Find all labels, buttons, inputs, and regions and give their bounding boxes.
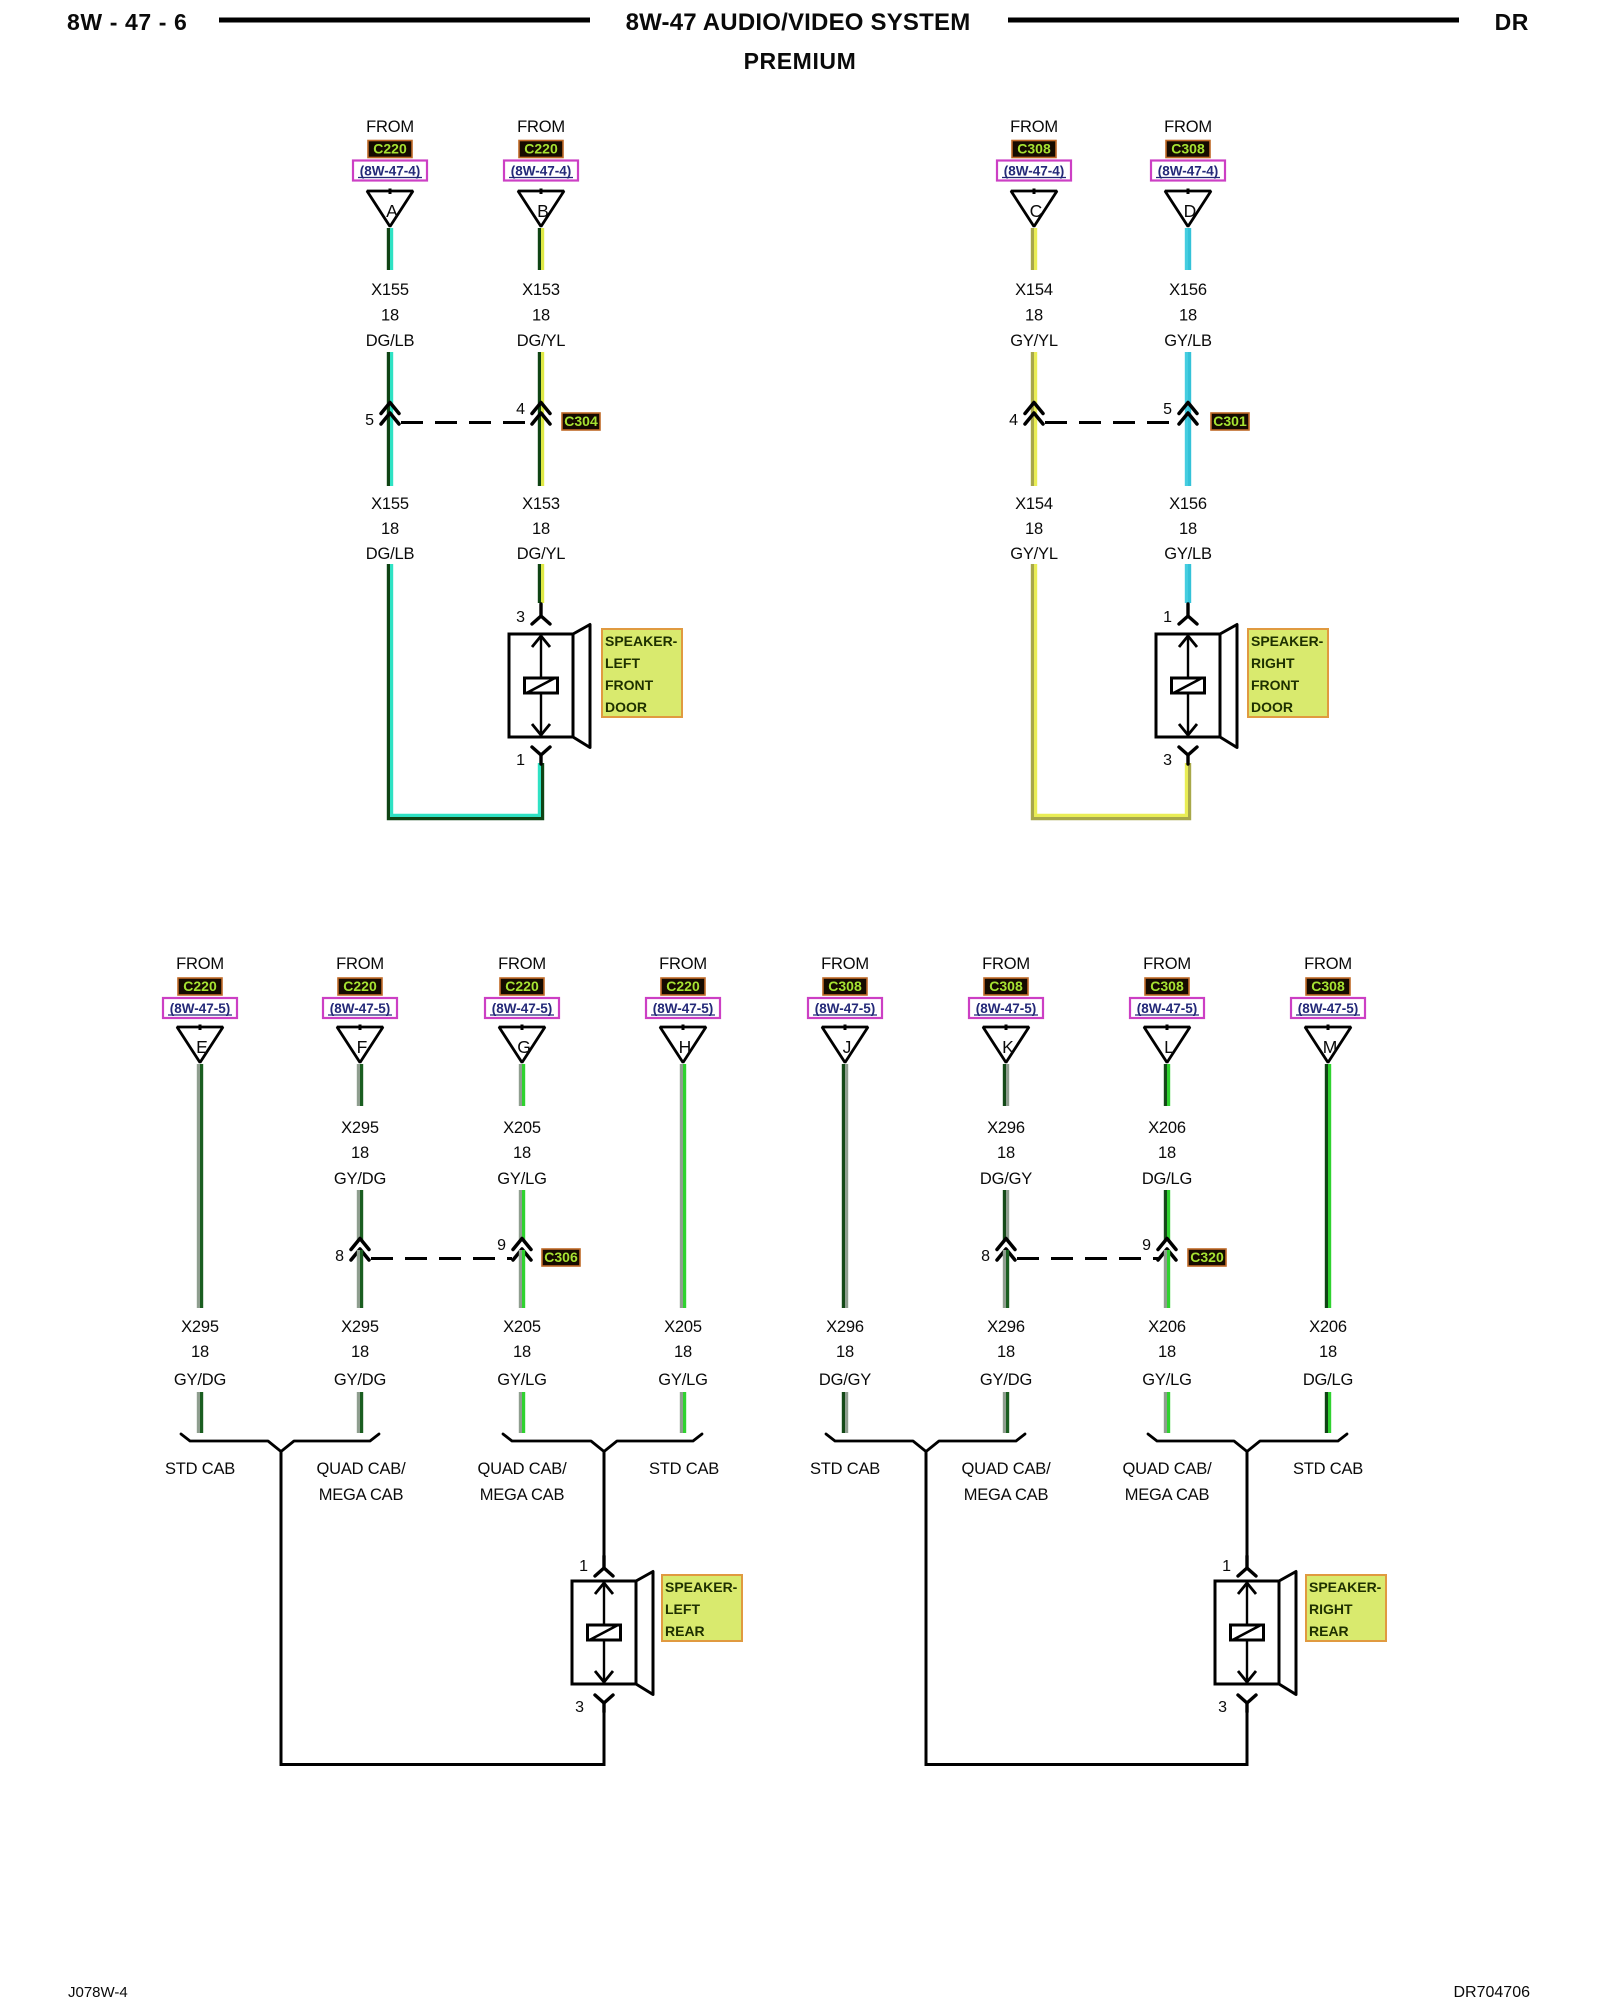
label QUAD CAB/MEGA CAB (col L) (1123, 1460, 1213, 1504)
inline connector pin 4 (col B) (516, 401, 550, 424)
speaker - left rear label (662, 1575, 742, 1641)
svg-text:GY/DG: GY/DG (174, 1371, 226, 1389)
node C: FROM label (1010, 118, 1058, 136)
node A: FROM label (366, 118, 414, 136)
svg-text:18: 18 (1179, 307, 1197, 325)
svg-text:F: F (357, 1037, 368, 1057)
page link (8W-47-4) (col D) (1151, 161, 1225, 181)
wire X156 GY/LB drop to speaker pin 1 (1186, 564, 1189, 603)
wire label X154 18 GY/YL upper (col C) (1010, 281, 1058, 350)
wire X296 seg2 (col K) (1004, 1190, 1007, 1241)
node K: FROM label (982, 955, 1030, 973)
svg-text:8W-47 AUDIO/VIDEO SYSTEM: 8W-47 AUDIO/VIDEO SYSTEM (626, 9, 971, 36)
svg-text:C308: C308 (828, 978, 862, 994)
svg-text:5: 5 (1163, 401, 1172, 418)
wire X156 seg3 (col D) (1186, 431, 1189, 486)
svg-text:FROM: FROM (498, 955, 546, 973)
connector link C220 (col H) (661, 978, 705, 995)
svg-text:(8W-47-5): (8W-47-5) (1137, 1001, 1198, 1016)
wire X153 seg2 (col B) (539, 352, 542, 431)
svg-text:C304: C304 (564, 413, 598, 429)
svg-text:3: 3 (516, 609, 525, 626)
svg-text:3: 3 (1163, 752, 1172, 769)
speaker-left-rear pin 1 (579, 1556, 613, 1576)
svg-text:DOOR: DOOR (605, 699, 647, 715)
connector C301 label (1211, 413, 1249, 430)
svg-text:FROM: FROM (821, 955, 869, 973)
svg-text:L: L (1164, 1037, 1174, 1057)
wire X295 seg2 (col F) (358, 1190, 361, 1241)
svg-text:C308: C308 (989, 978, 1023, 994)
speaker - left front door symbol (509, 625, 590, 748)
inline connector pin 5 (col A) (365, 403, 399, 430)
speaker-right-rear pin 1 (1222, 1556, 1256, 1576)
svg-text:GY/LG: GY/LG (497, 1371, 546, 1389)
page header left: 8W - 47 - 6 (67, 9, 187, 35)
svg-text:18: 18 (997, 1343, 1015, 1361)
connector C306 dashed link (371, 1257, 512, 1260)
wire X205 seg3 (col G) (520, 1250, 523, 1308)
wire X295 stub to brace (col F) (358, 1392, 361, 1433)
svg-text:E: E (196, 1037, 208, 1057)
speaker-right-front-door pin 1 (1163, 604, 1197, 626)
label QUAD CAB/MEGA CAB (col F) (317, 1460, 407, 1504)
wire label X156 18 GY/LB lower (col D) (1164, 495, 1212, 563)
off-page triangle M (1305, 1025, 1351, 1063)
wire from G/H brace to rear-left speaker pin 1 (black jumper) (603, 1451, 606, 1556)
wire X296 long run (col J) (843, 1064, 846, 1308)
connector link C220 (col F) (338, 978, 382, 995)
svg-text:(8W-47-5): (8W-47-5) (1298, 1001, 1359, 1016)
svg-text:4: 4 (516, 401, 525, 418)
svg-text:DG/LB: DG/LB (366, 332, 415, 350)
page link (8W-47-4) (col B) (504, 161, 578, 181)
connector link C308 (col K) (984, 978, 1028, 995)
wire X154 GY/YL run to speaker (yellow stripe) (1036, 564, 1187, 815)
svg-text:DG/GY: DG/GY (819, 1371, 871, 1389)
speaker-left-front-door pin 1 (516, 747, 550, 769)
off-page triangle H (660, 1025, 706, 1063)
inline connector pin 8 (col K) (981, 1239, 1015, 1266)
svg-text:8: 8 (335, 1248, 344, 1265)
svg-text:18: 18 (381, 520, 399, 538)
wire X295 stub to brace (col E) (198, 1392, 201, 1433)
svg-text:K: K (1002, 1037, 1014, 1057)
wire X155 seg2 (col A) (388, 352, 391, 431)
off-page triangle L (1144, 1025, 1190, 1063)
wire X205 stub to brace (col H) (681, 1392, 684, 1433)
footer left J078W-4 (68, 1984, 128, 2000)
svg-text:X154: X154 (1015, 281, 1053, 299)
wire label X295 18 GY/DG upper (col F) (334, 1119, 386, 1188)
wire label X205 18 GY/LG lower (col G) (497, 1318, 546, 1389)
svg-text:X205: X205 (664, 1318, 702, 1336)
page title: 8W-47 AUDIO/VIDEO SYSTEM (626, 9, 971, 36)
off-page triangle B (518, 189, 564, 227)
svg-text:X154: X154 (1015, 495, 1053, 513)
svg-text:QUAD CAB/: QUAD CAB/ (962, 1460, 1052, 1478)
svg-text:9: 9 (1142, 1237, 1151, 1254)
svg-text:1: 1 (1163, 609, 1172, 626)
svg-text:(8W-47-5): (8W-47-5) (976, 1001, 1037, 1016)
wire X154 seg3 (col C) (1032, 431, 1035, 486)
svg-text:REAR: REAR (665, 1623, 705, 1639)
connector C320 dashed link (1017, 1257, 1158, 1260)
wire X296 stub to brace (col J) (843, 1392, 846, 1433)
connector link C220 (col B) (519, 141, 563, 158)
svg-text:M: M (1323, 1037, 1338, 1057)
svg-text:FROM: FROM (982, 955, 1030, 973)
wire label X153 18 DG/YL lower (col B) (517, 495, 566, 563)
svg-text:RIGHT: RIGHT (1251, 655, 1295, 671)
svg-text:SPEAKER-: SPEAKER- (665, 1579, 738, 1595)
svg-text:FROM: FROM (659, 955, 707, 973)
svg-text:FROM: FROM (176, 955, 224, 973)
node F: FROM label (336, 955, 384, 973)
svg-text:(8W-47-4): (8W-47-4) (1158, 164, 1219, 179)
connector link C220 (col G) (500, 978, 544, 995)
page link (8W-47-5) (col J) (808, 998, 882, 1018)
svg-text:18: 18 (674, 1343, 692, 1361)
svg-text:MEGA CAB: MEGA CAB (480, 1486, 565, 1504)
svg-text:X295: X295 (181, 1318, 219, 1336)
svg-text:REAR: REAR (1309, 1623, 1349, 1639)
connector link C220 (col E) (178, 978, 222, 995)
svg-text:C220: C220 (373, 141, 407, 157)
svg-text:X296: X296 (826, 1318, 864, 1336)
svg-text:X155: X155 (371, 281, 409, 299)
svg-text:FROM: FROM (1164, 118, 1212, 136)
connector link C308 (col L) (1145, 978, 1189, 995)
svg-text:C308: C308 (1171, 141, 1205, 157)
wire X206 stub to brace (col M) (1326, 1392, 1329, 1433)
svg-text:4: 4 (1009, 412, 1018, 429)
node J: FROM label (821, 955, 869, 973)
svg-text:18: 18 (1319, 1343, 1337, 1361)
svg-text:C220: C220 (183, 978, 217, 994)
svg-text:C220: C220 (666, 978, 700, 994)
inline connector pin 5 (col D) (1163, 401, 1197, 424)
node E: FROM label (176, 955, 224, 973)
svg-text:X296: X296 (987, 1119, 1025, 1137)
svg-text:J078W-4: J078W-4 (68, 1984, 128, 2000)
svg-text:STD CAB: STD CAB (1293, 1460, 1363, 1478)
svg-text:18: 18 (513, 1343, 531, 1361)
svg-text:FRONT: FRONT (1251, 677, 1300, 693)
wire X296 seg3 (col K) (1004, 1250, 1007, 1308)
wire label X296 18 DG/GY upper (col K) (980, 1119, 1032, 1188)
page header right: DR (1495, 9, 1529, 35)
wire label X295 18 GY/DG lower (col F) (334, 1318, 386, 1389)
wire X153 DG/YL seg1 (col B) (539, 228, 542, 270)
svg-text:FRONT: FRONT (605, 677, 654, 693)
connector link C308 (col C) (1012, 141, 1056, 158)
connector C320 label (1188, 1249, 1226, 1266)
svg-text:DR704706: DR704706 (1454, 1984, 1531, 2000)
wire label X154 18 GY/YL lower (col C) (1010, 495, 1058, 563)
svg-text:8: 8 (981, 1248, 990, 1265)
page link (8W-47-5) (col L) (1130, 998, 1204, 1018)
svg-text:(8W-47-5): (8W-47-5) (170, 1001, 231, 1016)
svg-text:18: 18 (1025, 307, 1043, 325)
connector link C308 (col D) (1166, 141, 1210, 158)
svg-text:MEGA CAB: MEGA CAB (1125, 1486, 1210, 1504)
speaker - right front door symbol (1156, 625, 1237, 748)
wire X296 seg1 (col K) (1004, 1064, 1007, 1106)
off-page triangle A (367, 189, 413, 227)
wire X155 DG/LB seg1 (col A) (388, 228, 391, 270)
label STD CAB (col E) (165, 1460, 235, 1478)
svg-text:RIGHT: RIGHT (1309, 1601, 1353, 1617)
connector link C220 (col A) (368, 141, 412, 158)
page link (8W-47-5) (col F) (323, 998, 397, 1018)
wire label X153 18 DG/YL upper (col B) (517, 281, 566, 350)
svg-text:1: 1 (579, 1558, 588, 1575)
svg-text:18: 18 (532, 520, 550, 538)
off-page triangle D (1165, 189, 1211, 227)
svg-text:GY/LG: GY/LG (658, 1371, 707, 1389)
svg-text:X156: X156 (1169, 281, 1207, 299)
wire X295 long run (col E) (198, 1064, 201, 1308)
inline connector pin 9 (col L) (1142, 1237, 1176, 1260)
svg-text:FROM: FROM (517, 118, 565, 136)
wire X155 seg3 (col A) (388, 431, 391, 486)
node D: FROM label (1164, 118, 1212, 136)
wire from E/F brace to rear-left speaker pin 3 (black jumper) (281, 1451, 604, 1765)
page link (8W-47-5) (col H) (646, 998, 720, 1018)
svg-text:X296: X296 (987, 1318, 1025, 1336)
wire X206 seg2 (col L) (1165, 1190, 1168, 1241)
svg-text:C306: C306 (544, 1249, 578, 1265)
wire X205 seg1 (col G) (520, 1064, 523, 1106)
wire label X296 18 DG/GY lower (col J) (819, 1318, 871, 1389)
wire X296 stub to brace (col K) (1004, 1392, 1007, 1433)
brace STD CAB / QUAD CAB group J-K (826, 1434, 1025, 1452)
svg-text:SPEAKER-: SPEAKER- (605, 633, 678, 649)
wire label X206 18 DG/LG lower (col M) (1303, 1318, 1353, 1389)
inline connector pin 8 (col F) (335, 1239, 369, 1266)
svg-text:FROM: FROM (1010, 118, 1058, 136)
svg-text:18: 18 (351, 1144, 369, 1162)
svg-text:C308: C308 (1017, 141, 1051, 157)
wire label X206 18 GY/LG lower (col L) (1142, 1318, 1191, 1389)
wire label X205 18 GY/LG upper (col G) (497, 1119, 546, 1188)
svg-text:18: 18 (532, 307, 550, 325)
wire label X205 18 GY/LG lower (col H) (658, 1318, 707, 1389)
svg-text:J: J (843, 1037, 852, 1057)
svg-text:DG/LG: DG/LG (1303, 1371, 1353, 1389)
svg-text:X153: X153 (522, 281, 560, 299)
svg-text:FROM: FROM (1304, 955, 1352, 973)
svg-text:18: 18 (1179, 520, 1197, 538)
wire X205 long run (col H) (681, 1064, 684, 1308)
wire X205 stub to brace (col G) (520, 1392, 523, 1433)
connector C306 label (542, 1249, 580, 1266)
page link (8W-47-5) (col G) (485, 998, 559, 1018)
wire X295 seg1 (col F) (358, 1064, 361, 1106)
svg-text:X206: X206 (1309, 1318, 1347, 1336)
wire X295 seg3 (col F) (358, 1250, 361, 1308)
connector link C308 (col J) (823, 978, 867, 995)
wire label X155 18 DG/LB upper (col A) (366, 281, 415, 350)
off-page triangle J (822, 1025, 868, 1063)
wire X154 seg2 (col C) (1032, 352, 1035, 431)
wire from J/K brace to rear-right speaker pin 3 (black jumper) (926, 1451, 1247, 1765)
svg-text:X295: X295 (341, 1119, 379, 1137)
svg-text:C308: C308 (1150, 978, 1184, 994)
svg-text:FROM: FROM (1143, 955, 1191, 973)
svg-text:18: 18 (191, 1343, 209, 1361)
label STD CAB (col J) (810, 1460, 880, 1478)
svg-text:H: H (679, 1037, 692, 1057)
svg-text:5: 5 (365, 412, 374, 429)
svg-text:18: 18 (1158, 1343, 1176, 1361)
svg-text:DG/GY: DG/GY (980, 1170, 1032, 1188)
svg-text:C301: C301 (1213, 413, 1247, 429)
svg-text:GY/DG: GY/DG (334, 1371, 386, 1389)
svg-text:PREMIUM: PREMIUM (744, 48, 857, 74)
svg-text:DR: DR (1495, 9, 1529, 35)
svg-text:X153: X153 (522, 495, 560, 513)
svg-text:QUAD CAB/: QUAD CAB/ (478, 1460, 568, 1478)
wire X205 seg2 (col G) (520, 1190, 523, 1241)
svg-text:18: 18 (997, 1144, 1015, 1162)
svg-text:(8W-47-4): (8W-47-4) (1004, 164, 1065, 179)
svg-text:GY/LB: GY/LB (1164, 332, 1212, 350)
svg-text:18: 18 (1025, 520, 1043, 538)
svg-text:X295: X295 (341, 1318, 379, 1336)
node M: FROM label (1304, 955, 1352, 973)
wire X153 DG/YL drop to speaker pin 3 (539, 564, 542, 603)
inline connector pin 4 (col C) (1009, 403, 1043, 430)
node H: FROM label (659, 955, 707, 973)
wire X153 seg3 (col B) (539, 431, 542, 486)
svg-text:DG/YL: DG/YL (517, 545, 566, 563)
speaker-left-rear pin 3 (575, 1695, 613, 1716)
node G: FROM label (498, 955, 546, 973)
svg-text:FROM: FROM (336, 955, 384, 973)
svg-text:18: 18 (836, 1343, 854, 1361)
svg-text:(8W-47-5): (8W-47-5) (653, 1001, 714, 1016)
svg-text:(8W-47-5): (8W-47-5) (330, 1001, 391, 1016)
subtitle PREMIUM (744, 48, 857, 74)
svg-text:8W - 47 - 6: 8W - 47 - 6 (67, 9, 187, 35)
speaker - left rear symbol (572, 1572, 653, 1695)
brace QUAD CAB / STD CAB group L-M (1148, 1434, 1347, 1452)
svg-text:18: 18 (381, 307, 399, 325)
label QUAD CAB/MEGA CAB (col K) (962, 1460, 1052, 1504)
speaker - left front door label (602, 629, 682, 717)
wire X155 DG/LB run to speaker (dark green stripe) (388, 564, 542, 819)
svg-text:MEGA CAB: MEGA CAB (964, 1486, 1049, 1504)
speaker - right rear symbol (1215, 1572, 1296, 1695)
header rule left (219, 18, 590, 23)
brace STD CAB / QUAD CAB group E-F (181, 1434, 379, 1452)
off-page triangle F (337, 1025, 383, 1063)
wire X206 seg1 (col L) (1165, 1064, 1168, 1106)
svg-text:MEGA CAB: MEGA CAB (319, 1486, 404, 1504)
svg-text:B: B (537, 201, 549, 221)
off-page triangle E (177, 1025, 223, 1063)
wire X154 GY/YL run to speaker (olive stripe) (1032, 564, 1189, 819)
connector C304 label (562, 413, 600, 430)
svg-text:3: 3 (1218, 1699, 1227, 1716)
node L: FROM label (1143, 955, 1191, 973)
svg-text:QUAD CAB/: QUAD CAB/ (317, 1460, 407, 1478)
header rule right (1008, 18, 1459, 23)
svg-text:X156: X156 (1169, 495, 1207, 513)
svg-text:C220: C220 (505, 978, 539, 994)
wire X206 seg3 (col L) (1165, 1250, 1168, 1308)
page link (8W-47-4) (col A) (353, 161, 427, 181)
svg-text:GY/DG: GY/DG (334, 1170, 386, 1188)
svg-text:9: 9 (497, 1237, 506, 1254)
svg-text:D: D (1184, 201, 1197, 221)
svg-text:3: 3 (575, 1699, 584, 1716)
footer right DR704706 (1454, 1984, 1531, 2000)
svg-text:(8W-47-5): (8W-47-5) (492, 1001, 553, 1016)
speaker - right rear label (1306, 1575, 1386, 1641)
svg-text:DG/LB: DG/LB (366, 545, 415, 563)
off-page triangle C (1011, 189, 1057, 227)
svg-text:SPEAKER-: SPEAKER- (1251, 633, 1324, 649)
svg-text:A: A (386, 201, 398, 221)
svg-text:GY/LG: GY/LG (1142, 1371, 1191, 1389)
svg-text:GY/LB: GY/LB (1164, 545, 1212, 563)
wire X155 DG/LB run to speaker (light blue stripe) (392, 564, 540, 815)
off-page triangle K (983, 1025, 1029, 1063)
svg-text:X205: X205 (503, 1119, 541, 1137)
svg-text:1: 1 (516, 752, 525, 769)
svg-text:C220: C220 (343, 978, 377, 994)
wire from L/M brace to rear-right speaker pin 1 (black jumper) (1246, 1451, 1249, 1556)
label STD CAB (col H) (649, 1460, 719, 1478)
connector C304 dashed link (401, 421, 530, 424)
node B: FROM label (517, 118, 565, 136)
svg-text:STD CAB: STD CAB (649, 1460, 719, 1478)
label STD CAB (col M) (1293, 1460, 1363, 1478)
page link (8W-47-4) (col C) (997, 161, 1071, 181)
svg-text:18: 18 (1158, 1144, 1176, 1162)
wire label X156 18 GY/LB upper (col D) (1164, 281, 1212, 350)
svg-text:QUAD CAB/: QUAD CAB/ (1123, 1460, 1213, 1478)
svg-text:DOOR: DOOR (1251, 699, 1293, 715)
connector C301 dashed link (1045, 421, 1177, 424)
svg-text:STD CAB: STD CAB (810, 1460, 880, 1478)
brace QUAD CAB / STD CAB group G-H (503, 1434, 702, 1452)
svg-text:LEFT: LEFT (665, 1601, 700, 1617)
svg-text:GY/YL: GY/YL (1010, 545, 1058, 563)
svg-text:G: G (517, 1037, 531, 1057)
svg-text:GY/DG: GY/DG (980, 1371, 1032, 1389)
svg-text:X205: X205 (503, 1318, 541, 1336)
speaker-right-rear pin 3 (1218, 1695, 1256, 1716)
wire X154 GY/YL seg1 (col C) (1032, 228, 1035, 270)
svg-text:X206: X206 (1148, 1119, 1186, 1137)
svg-text:(8W-47-4): (8W-47-4) (511, 164, 572, 179)
off-page triangle G (499, 1025, 545, 1063)
svg-text:(8W-47-5): (8W-47-5) (815, 1001, 876, 1016)
wire label X206 18 DG/LG upper (col L) (1142, 1119, 1192, 1188)
svg-text:C220: C220 (524, 141, 558, 157)
svg-text:C: C (1030, 201, 1043, 221)
svg-text:18: 18 (513, 1144, 531, 1162)
svg-text:DG/YL: DG/YL (517, 332, 566, 350)
svg-text:18: 18 (351, 1343, 369, 1361)
page link (8W-47-5) (col E) (163, 998, 237, 1018)
wire label X295 18 GY/DG lower (col E) (174, 1318, 226, 1389)
svg-text:1: 1 (1222, 1558, 1231, 1575)
